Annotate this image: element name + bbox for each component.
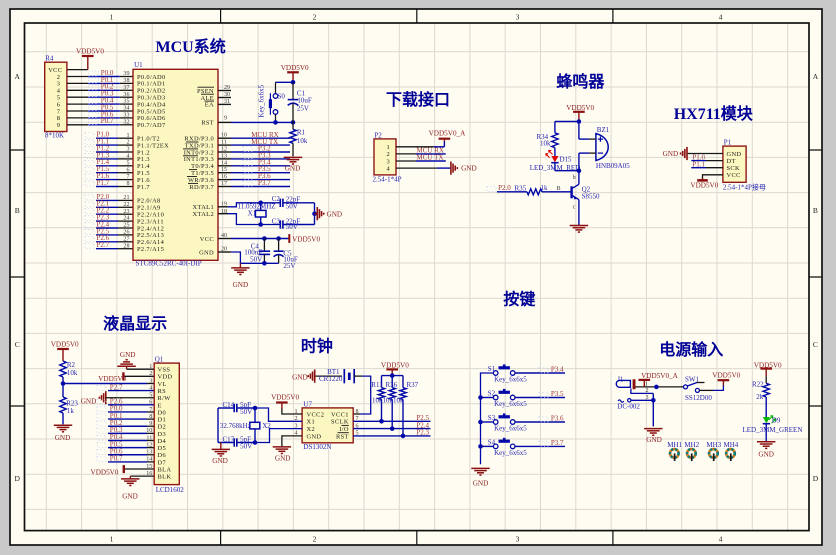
svg-text:D1: D1 [158,417,167,424]
svg-text:GND: GND [473,480,489,488]
svg-text:P2.3: P2.3 [416,429,429,437]
wire VL to LCD [63,383,147,385]
connector P1 HX711 header [723,146,746,182]
svg-text:GND: GND [663,150,679,158]
svg-text:2.54-1*4P接母: 2.54-1*4P接母 [723,182,766,191]
svg-text:VDD5V0: VDD5V0 [566,104,594,112]
svg-text:10k: 10k [372,396,383,404]
svg-text:32.768kHz: 32.768kHz [220,422,251,430]
svg-text:13: 13 [221,153,227,159]
wire battery to U7 VCC1 [354,375,362,377]
power VDD5V0_A (input) [643,380,645,387]
svg-text:4: 4 [719,535,723,544]
svg-text:37: 37 [123,85,129,91]
wire P1 GND pin [687,153,723,155]
svg-text:S3: S3 [488,414,496,422]
svg-text:3: 3 [126,147,129,153]
wire P1 DT pin net P1.0 [691,160,706,162]
wire U1 GND pin down [231,252,240,263]
wire LCD pin2 [125,375,155,377]
svg-text:Q1: Q1 [155,355,164,363]
svg-text:26: 26 [123,230,129,236]
node key rail S4 [478,444,483,449]
svg-text:VDD5V0: VDD5V0 [91,468,119,476]
svg-text:X1: X1 [307,419,316,426]
svg-text:35: 35 [123,99,129,105]
svg-text:3: 3 [516,535,520,544]
svg-text:P1.7: P1.7 [137,184,150,191]
svg-text:11.0592MHZ: 11.0592MHZ [238,203,276,211]
svg-text:3: 3 [646,395,649,401]
wire U1 VCC to VDD5V0 [231,238,288,240]
wire RST [231,121,293,123]
pushbutton S1 Key_6x6x5 [493,371,498,376]
svg-text:R11: R11 [371,381,383,389]
node pull-up rail [390,373,395,378]
resistor network R4 [45,62,67,131]
svg-text:B: B [813,206,818,215]
node RST-C1-R1 [291,120,296,125]
svg-text:1: 1 [386,144,390,151]
svg-text:D3: D3 [158,431,167,438]
U1 pin VCC [218,238,231,240]
svg-text:GND: GND [120,351,136,359]
node buzzer top [577,119,582,124]
svg-text:9: 9 [57,122,61,129]
svg-text:5: 5 [149,393,152,399]
wire P2 pin2 MCU RX [396,153,416,155]
svg-text:VDD5V0_A: VDD5V0_A [641,372,679,380]
capacitor C3 22pF 50V [279,220,281,228]
svg-text:MCU TX: MCU TX [417,154,444,162]
power VDD5V0 (HX711) [702,178,704,180]
svg-text:25V: 25V [297,104,309,112]
wires LCD D0-D7 net P0.0-P0.7 [108,411,147,413]
ground (download) [450,162,452,175]
svg-text:GND: GND [285,164,301,172]
ground (contrast) [54,424,72,426]
svg-text:2: 2 [386,151,390,158]
svg-text:VDD5V0: VDD5V0 [381,362,409,370]
svg-text:16: 16 [221,174,227,180]
svg-text:25: 25 [123,223,129,229]
wire U7 GND pin [282,436,302,447]
svg-text:10k: 10k [67,369,78,377]
node key rail S3 [478,420,483,425]
svg-text:7: 7 [126,174,129,180]
svg-text:DT: DT [727,158,736,165]
svg-text:2: 2 [149,371,152,377]
svg-text:GND: GND [81,398,97,406]
svg-text:D4: D4 [158,438,167,445]
resistor R11 10k [381,376,383,388]
svg-text:SCLK: SCLK [331,419,349,426]
LED D9 LED_3MM_GREEN [763,417,770,423]
svg-text:时钟: 时钟 [301,337,333,356]
svg-text:9: 9 [224,115,227,121]
wire U7 RST net P2.3 [353,435,430,437]
svg-text:VDD5V0: VDD5V0 [712,372,740,380]
svg-text:DS1302N: DS1302N [303,443,331,451]
connector P2 2.54-1*4P [374,139,396,175]
wire decoupling bottom rail [240,262,278,264]
wire key S0 to RST net [275,114,277,122]
capacitor C2 22pF 50V [279,199,281,207]
wire LCD E net P2.6 [108,404,154,406]
svg-text:GND: GND [727,151,742,158]
svg-text:D: D [14,474,20,483]
svg-text:S1: S1 [488,365,496,373]
node crystal-gnd [312,211,317,216]
svg-text:3: 3 [386,158,390,165]
resistor R36 10k [391,376,393,388]
power VDD5V0 (buzzer) [578,112,580,122]
svg-text:38: 38 [123,78,129,84]
svg-text:4: 4 [126,154,129,160]
wire LED to transistor node [555,170,579,172]
svg-text:39: 39 [123,71,129,77]
svg-text:8: 8 [126,181,129,187]
svg-text:D0: D0 [158,409,167,416]
capacitor C4 100nF 50V [263,239,265,252]
svg-text:XTAL2: XTAL2 [193,211,214,218]
crystal X2 32.768kHz [254,408,256,422]
svg-text:VDD5V0: VDD5V0 [690,182,718,190]
svg-text:7: 7 [149,407,152,413]
svg-text:10k: 10k [383,396,394,404]
svg-text:CR1220: CR1220 [319,375,343,383]
wire U7 X1 to crystal [255,408,302,421]
svg-text:27: 27 [123,236,129,242]
svg-text:Key_6x6x5: Key_6x6x5 [494,400,527,408]
svg-text:RST: RST [201,120,214,127]
svg-text:U1: U1 [134,61,143,69]
battery BT1 CR1220 [316,375,343,377]
svg-text:VCC: VCC [200,236,214,243]
svg-text:GND: GND [292,373,308,381]
svg-text:Key_6x6x5: Key_6x6x5 [494,424,527,432]
ground (crystal) [315,213,318,215]
wire P2 pin3 MCU TX [396,160,416,162]
svg-text:2k: 2k [756,393,764,401]
svg-text:2: 2 [126,140,129,146]
svg-text:1: 1 [110,535,114,544]
svg-text:R4: R4 [45,55,54,63]
wire P2 pin1 to VDD5V0_A [396,146,434,148]
capacitor C1 10uF 25V [292,82,294,99]
svg-text:P0.7: P0.7 [110,455,123,463]
svg-text:P2.7: P2.7 [110,383,123,391]
wires to U1 P2 pins with net labels P2.0-P2.7 [96,199,118,201]
svg-text:20: 20 [221,246,227,252]
capacitor C14 5pF 50V [218,407,234,409]
svg-text:GND: GND [461,165,477,173]
svg-text:8*10K: 8*10K [45,132,64,140]
svg-text:GND: GND [758,451,774,459]
svg-text:VSS: VSS [158,367,171,374]
power VDD5V0 (R4 pull-up) [87,56,89,70]
chip U7 DS1302N [302,408,353,443]
ground (HX711) [686,147,688,160]
node key-RST junction [273,120,278,125]
svg-text:b: b [573,175,576,181]
pushbutton S0 Key_6x6x5 [273,94,278,99]
svg-text:19: 19 [221,201,227,207]
wire U7 SCLK net P2.5 [353,420,430,422]
wire SW1 to VDD5V0 [699,389,713,391]
svg-text:18: 18 [221,209,227,215]
power VDD5V0 (clock pull-ups) [391,369,393,375]
svg-text:RD/P3.7: RD/P3.7 [189,184,214,191]
svg-text:电源输入: 电源输入 [659,340,723,359]
svg-text:DC-002: DC-002 [617,402,640,410]
svg-text:VDD5V0: VDD5V0 [51,341,79,349]
wire pull-up rail [382,375,404,377]
svg-text:RST: RST [336,433,349,440]
svg-text:15: 15 [221,167,227,173]
svg-text:GND: GND [122,493,138,501]
wire node to Q2 collector [578,171,580,185]
svg-text:BLA: BLA [158,466,172,473]
node key rail S2 [478,395,483,400]
svg-text:10uF: 10uF [297,96,312,104]
svg-text:D5: D5 [158,445,167,452]
svg-text:34: 34 [123,106,129,112]
svg-text:R2: R2 [67,361,76,369]
power VDD5V0 (contrast) [62,349,64,361]
svg-text:RS: RS [158,388,167,395]
ground (U1 GND) [239,263,241,268]
svg-text:2: 2 [646,388,649,394]
svg-text:2: 2 [313,12,317,21]
node gnd rail [262,261,267,266]
svg-text:31: 31 [224,99,230,105]
svg-text:P1.7: P1.7 [97,179,110,187]
svg-text:Key_6x6x5: Key_6x6x5 [494,375,527,383]
svg-text:Key_6x6x5: Key_6x6x5 [494,449,527,457]
svg-text:P2.0: P2.0 [498,184,511,192]
wire LCD pin1 [127,368,155,370]
ground (LED) [757,441,775,443]
svg-text:LCD1602: LCD1602 [156,486,185,494]
svg-text:P3.7: P3.7 [551,439,564,447]
node J1 pin1 [654,385,659,390]
svg-text:D6: D6 [158,452,167,459]
wire R22 to D9 [765,397,767,417]
svg-text:4: 4 [149,385,152,391]
wire Q2 emitter to ground [578,200,580,226]
svg-text:VDD5V0: VDD5V0 [292,235,320,243]
svg-text:13: 13 [146,450,152,456]
svg-text:GND: GND [212,457,228,465]
svg-text:S8550: S8550 [582,193,600,201]
resistor R22 2k [765,376,767,383]
ground (LCD BLK) [121,478,139,480]
svg-text:P2.7/A15: P2.7/A15 [137,246,164,253]
svg-text:P1: P1 [724,138,732,146]
svg-text:2: 2 [313,535,317,544]
svg-text:S4: S4 [488,438,496,446]
svg-text:MH1: MH1 [667,441,682,449]
svg-text:X1: X1 [248,210,257,218]
node C4 top [262,236,267,241]
svg-text:4: 4 [386,165,390,172]
svg-text:GND: GND [307,433,322,440]
svg-text:VDD5V0: VDD5V0 [76,47,104,55]
svg-text:1k: 1k [541,184,549,192]
svg-text:I/O: I/O [339,426,349,433]
svg-text:R/W: R/W [158,395,172,402]
ground (U7) [273,446,291,448]
node reset-top [291,80,296,85]
pushbutton S2 Key_6x6x5 [481,397,494,399]
svg-text:15: 15 [146,464,152,470]
svg-text:E: E [158,402,162,409]
svg-text:VCC1: VCC1 [331,411,349,418]
svg-text:VDD5V0_A: VDD5V0_A [429,130,467,138]
svg-text:B: B [557,186,561,192]
wire crystal right rail [314,203,316,225]
node C5 top [276,236,281,241]
pushbutton S3 Key_6x6x5 [481,421,494,423]
svg-text:4: 4 [719,12,723,21]
svg-text:8: 8 [149,414,152,420]
svg-text:24: 24 [123,216,129,222]
svg-text:X2: X2 [307,426,316,433]
svg-text:液晶显示: 液晶显示 [103,314,167,333]
svg-text:Key_6x6x5: Key_6x6x5 [258,84,266,117]
svg-text:6: 6 [126,167,129,173]
svg-text:50V: 50V [250,255,262,263]
svg-text:VCC: VCC [727,172,741,179]
wire buzzer minus pin [589,152,596,154]
svg-text:EA: EA [205,102,214,109]
wire S2 to net P3.5 [515,397,565,399]
resistor R23 1k [62,384,64,398]
svg-text:28: 28 [123,243,129,249]
svg-text:R37: R37 [407,381,419,389]
svg-text:HX711模块: HX711模块 [674,104,754,123]
svg-text:R35: R35 [515,185,527,193]
svg-text:10: 10 [146,428,152,434]
svg-text:1: 1 [645,381,648,387]
svg-text:2.54-1*4P: 2.54-1*4P [373,175,402,183]
node VL junction [61,381,66,386]
U1 pins PSEN ALE EA [218,90,231,92]
svg-text:32: 32 [123,119,129,125]
svg-text:21: 21 [123,195,129,201]
node J1 gnd [651,398,656,403]
svg-text:GND: GND [55,434,71,442]
wire P1 VCC pin to VDD5V0 [703,175,723,180]
wire VDD node to key S0 [276,81,294,83]
svg-text:P3.7: P3.7 [258,179,271,187]
wire D9 to ground [765,424,767,442]
svg-text:P3.4: P3.4 [551,366,564,374]
wire crystal left rail [217,408,219,443]
svg-text:50V: 50V [286,223,298,231]
svg-text:12: 12 [221,147,227,153]
ground (reset) [284,156,302,158]
pushbutton S4 Key_6x6x5 [481,445,494,447]
ground (crystal X2) [220,443,222,450]
wire P2 pin4 to ground [396,167,437,169]
svg-text:11: 11 [221,140,227,146]
svg-text:10k: 10k [393,396,404,404]
wire J1 pins 2-3 to ground [652,393,654,426]
crystal X1 11.0592MHZ [260,203,262,211]
svg-text:LED_3MM_GREEN: LED_3MM_GREEN [743,426,803,434]
wire LCD BLK to ground [130,475,154,477]
svg-text:VDD: VDD [158,374,173,381]
svg-text:14: 14 [146,457,152,463]
svg-text:MCU系统: MCU系统 [156,37,226,56]
svg-text:23: 23 [123,209,129,215]
node collector [577,168,582,173]
svg-text:下载接口: 下载接口 [386,90,450,109]
svg-text:P0.7/AD7: P0.7/AD7 [137,122,166,129]
svg-text:D: D [813,474,819,483]
svg-text:17: 17 [221,181,227,187]
svg-text:MH3: MH3 [706,441,721,449]
svg-text:3: 3 [516,12,520,21]
capacitor C5 10uF 25V [278,239,280,252]
LED D15 LED_3MM_RED [554,148,556,156]
svg-text:GND: GND [233,281,249,289]
wire LCD R/W [106,397,154,399]
wire XTAL2 to crystal rail [228,214,280,225]
svg-text:16: 16 [146,471,152,477]
svg-text:1: 1 [110,12,114,21]
svg-text:10: 10 [221,133,227,139]
U1 P3 pins with wires [218,137,231,139]
svg-text:D2: D2 [158,424,167,431]
svg-text:14: 14 [221,160,227,166]
ground (power input) [644,428,662,430]
power VDD5V0 (switched) [722,380,724,385]
resistor R34 10k [554,122,556,133]
svg-text:9: 9 [149,421,152,427]
svg-text:GND: GND [275,454,291,462]
wire S4 to net P3.7 [515,445,565,447]
svg-text:R22: R22 [752,380,764,388]
svg-text:S2: S2 [488,390,496,398]
svg-text:P2: P2 [374,131,382,139]
svg-text:11: 11 [146,435,152,441]
wire XTAL1 to crystal rail [228,203,280,207]
wire LCD RS net P2.7 [108,390,154,392]
wire U7 I/O net P2.4 [353,428,430,430]
power VDD5V0 (LED indicator) [765,369,767,377]
svg-text:P3.6: P3.6 [551,415,564,423]
svg-text:R36: R36 [386,381,398,389]
wire keys ground rail [481,373,494,464]
svg-text:S0: S0 [278,92,286,100]
svg-text:HNB09A05: HNB09A05 [596,162,630,170]
svg-text:1: 1 [126,133,129,139]
svg-text:50V: 50V [286,203,298,211]
wire S3 to net P3.6 [515,421,565,423]
wire J1 pin3 [618,400,624,402]
svg-text:C17: C17 [223,435,235,443]
svg-text:1: 1 [149,364,152,370]
svg-text:P2.7: P2.7 [97,241,110,249]
svg-text:36: 36 [123,92,129,98]
svg-text:VL: VL [158,381,167,388]
svg-text:BZ1: BZ1 [597,126,610,134]
ground (keys) [471,467,489,469]
U1 pin RST [218,121,231,123]
